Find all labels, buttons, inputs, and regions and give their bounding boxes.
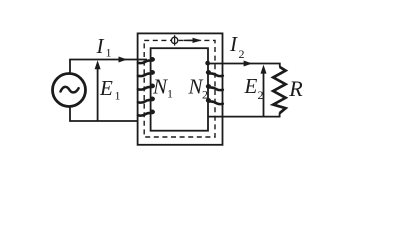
secondary winding N2 turn 2 (207, 85, 223, 90)
svg-text:R: R (288, 76, 303, 101)
wire secondary top (208, 64, 280, 68)
transformer core outer rectangle (138, 33, 223, 144)
svg-text:2: 2 (202, 88, 208, 102)
primary winding N1 turn 1 (138, 58, 154, 63)
svg-text:N: N (152, 75, 168, 99)
primary winding N1 turn 2 (138, 71, 154, 76)
arrow E2 (263, 69, 265, 117)
primary winding N1 turn 3 (138, 85, 154, 90)
arrow I1 (119, 57, 128, 63)
AC source G1 (53, 74, 86, 107)
AC source sine symbol (61, 87, 79, 93)
svg-text:1: 1 (106, 46, 112, 60)
transformer core inner rectangle (window) (151, 48, 208, 131)
wire primary bottom (70, 107, 138, 121)
arrow I2 (244, 61, 253, 67)
primary winding N1 turn 4 (138, 98, 154, 103)
secondary top hook (206, 62, 209, 65)
svg-text:I: I (96, 34, 105, 58)
wire primary top (70, 60, 147, 73)
svg-text:2: 2 (239, 47, 245, 61)
wire secondary bottom (208, 113, 280, 117)
primary winding N1 turn 5 (138, 111, 154, 116)
svg-text:1: 1 (167, 87, 173, 101)
svg-text:E: E (99, 76, 113, 100)
secondary winding N2 turn 3 (207, 99, 223, 104)
arrow E1 (97, 64, 99, 121)
flux symbol phi (171, 37, 177, 43)
svg-text:E: E (244, 74, 258, 98)
flux arrow (184, 39, 194, 41)
flux path dashed rectangle (144, 40, 215, 137)
resistor R zigzag (273, 67, 285, 113)
secondary winding N2 turn 1 (207, 71, 223, 76)
svg-text:I: I (229, 32, 238, 56)
svg-text:1: 1 (115, 89, 121, 103)
svg-text:2: 2 (258, 88, 264, 102)
